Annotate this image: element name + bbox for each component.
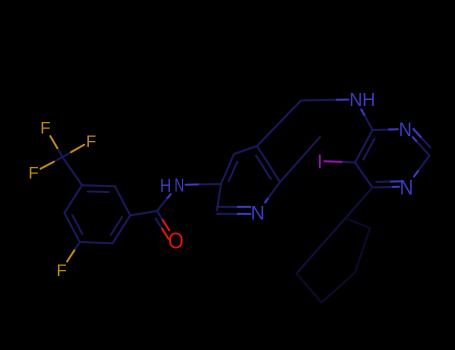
svg-text:F: F [28,164,38,183]
svg-text:N: N [251,202,265,224]
svg-text:F: F [40,119,50,138]
svg-text:N: N [349,90,362,110]
svg-text:I: I [317,152,322,173]
svg-text:N: N [174,176,184,196]
svg-text:N: N [400,176,414,199]
svg-text:F: F [86,132,96,151]
svg-text:N: N [399,118,412,140]
svg-text:O: O [168,227,184,254]
svg-text:F: F [56,261,66,280]
svg-text:H: H [160,176,171,197]
svg-text:H: H [362,90,375,110]
